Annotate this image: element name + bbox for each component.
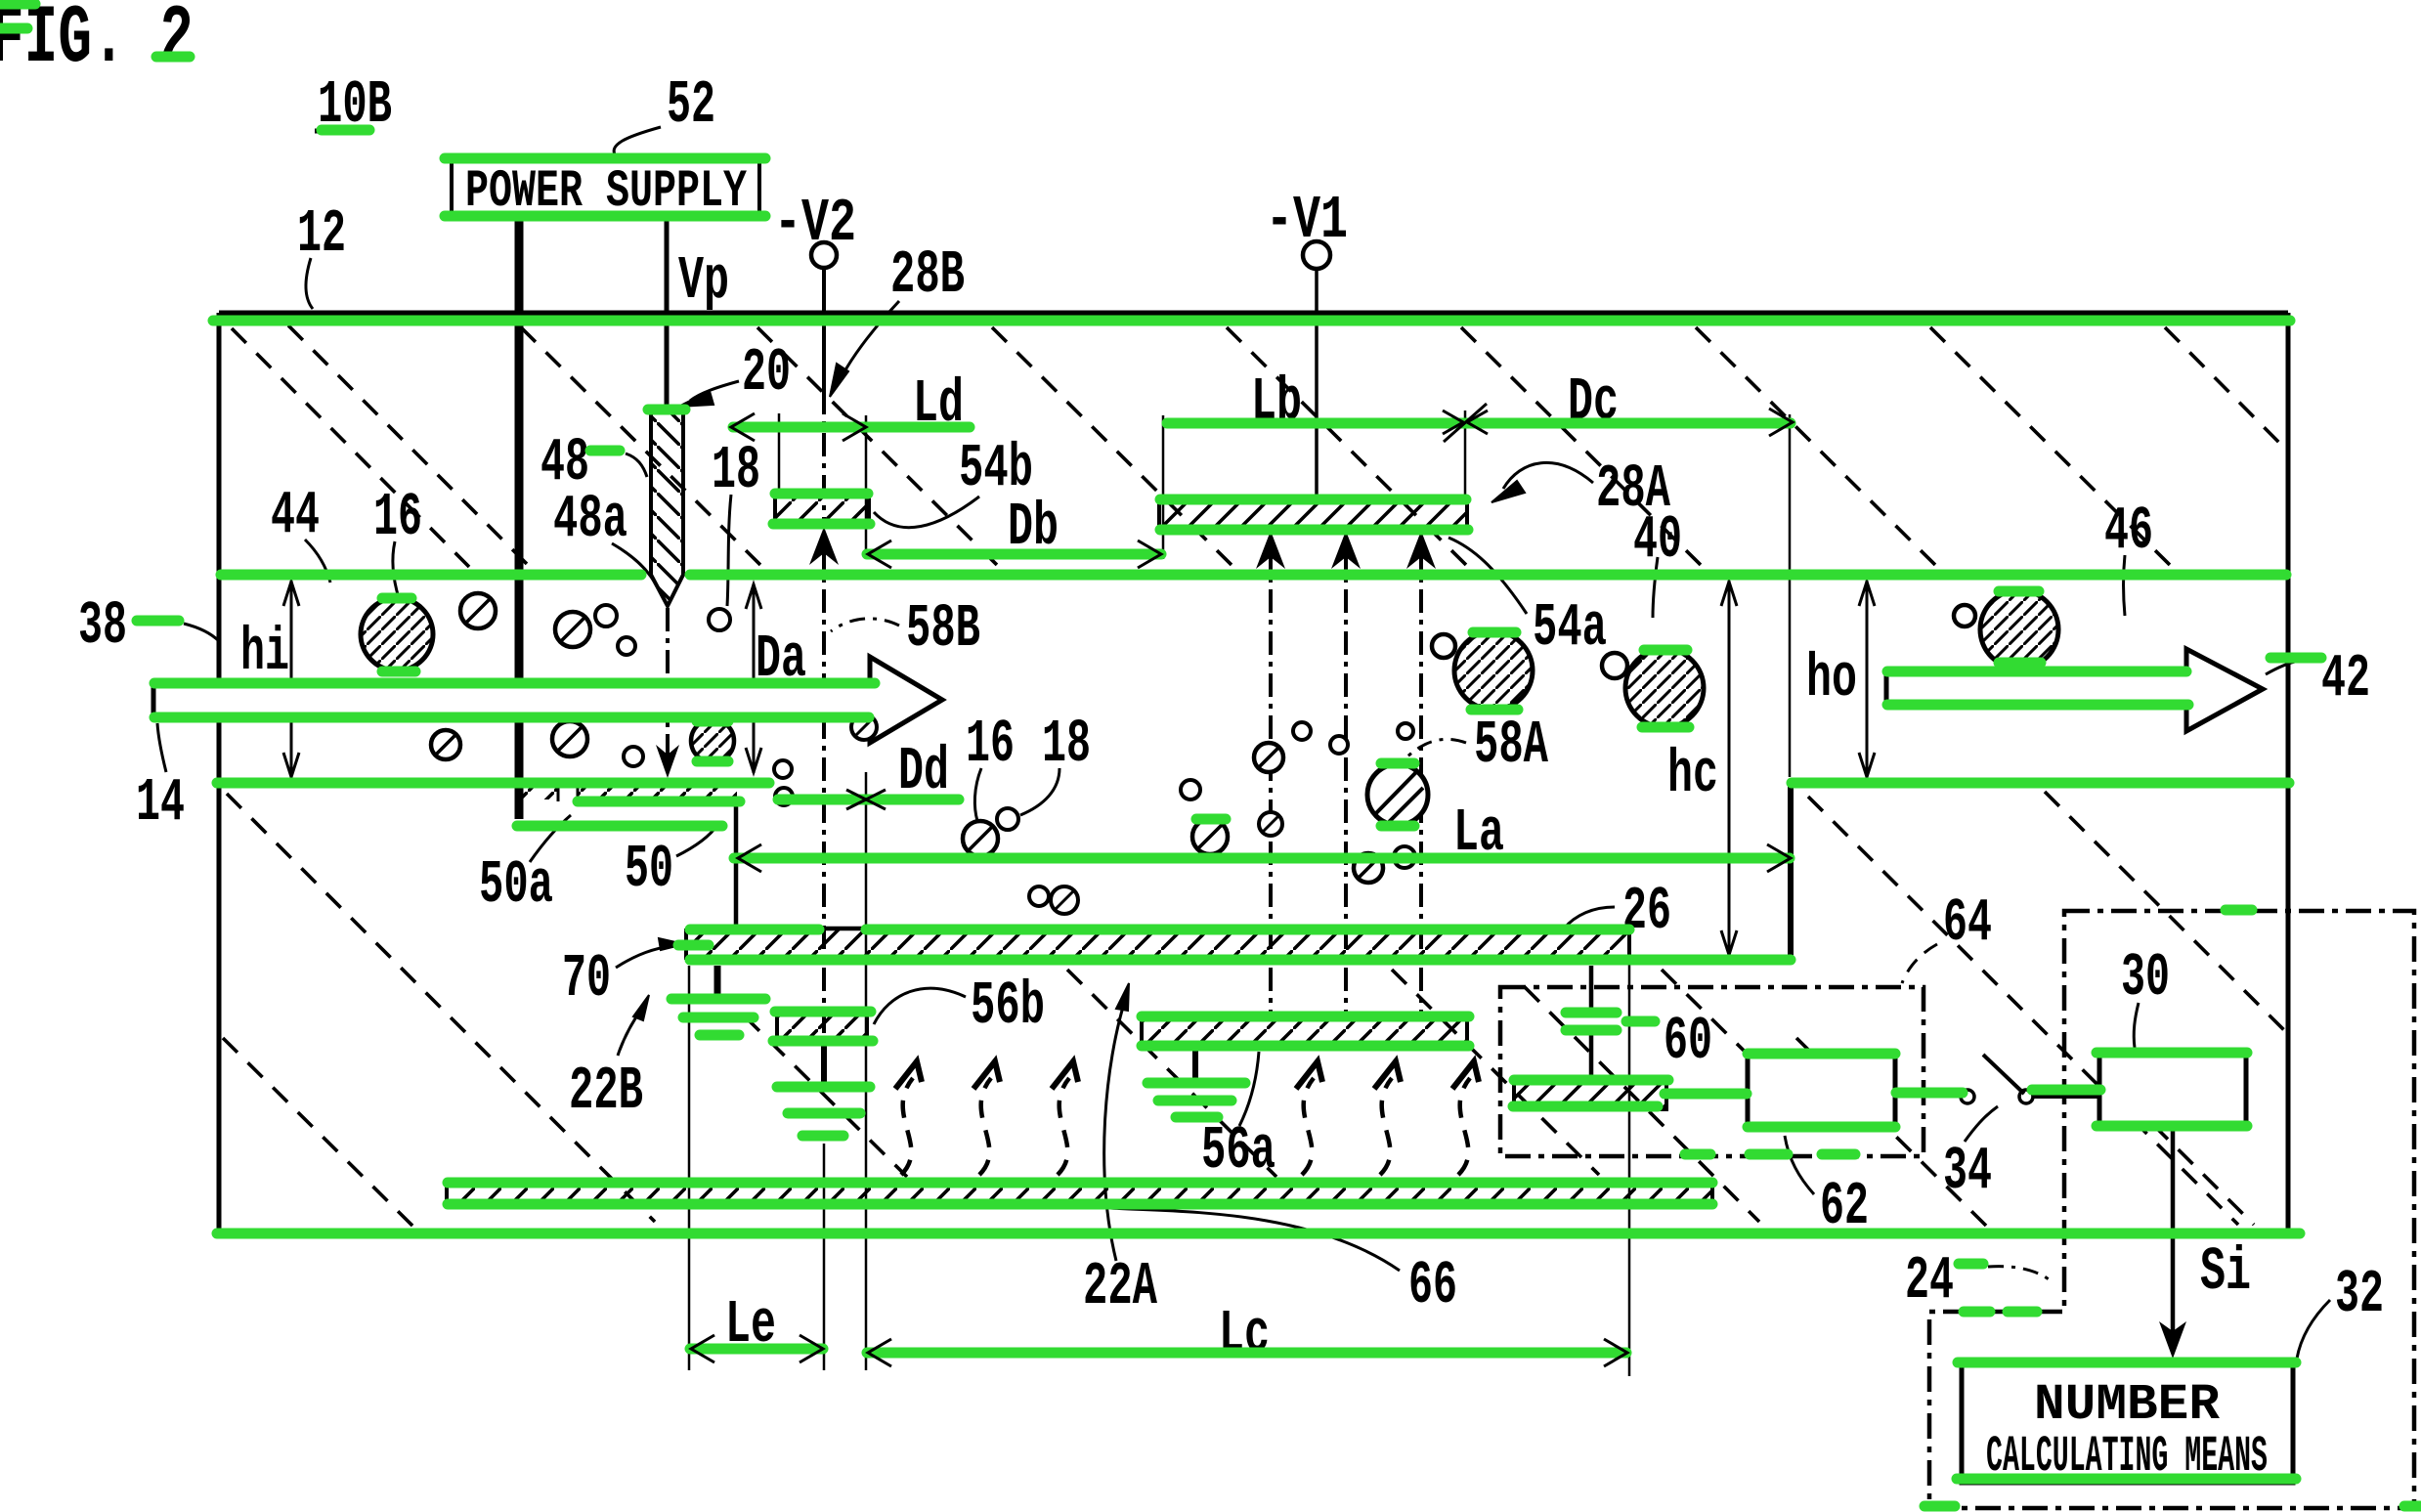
green electrode 26 top (690, 925, 819, 935)
extension line from electrode 26 right to Lc (1628, 963, 1631, 1376)
wall hatching dashed diagonals (bottom-left wall block) (223, 794, 655, 1228)
green 54b electrode top (775, 489, 868, 499)
label 20 and leader arrow (678, 338, 791, 408)
green ground 56a bars (1147, 1078, 1245, 1089)
svg-text:32: 32 (2335, 1260, 2384, 1329)
dimension line La arrows (738, 844, 1791, 872)
green electrode 26 left dash (678, 940, 709, 951)
svg-text:58B: 58B (906, 594, 980, 664)
particle slashed cavity lower-left (1259, 812, 1282, 836)
green dashes on box 64 bottom (1685, 1149, 1710, 1160)
green Le dimension line (690, 1344, 823, 1355)
svg-text:12: 12 (297, 199, 346, 269)
svg-text:18: 18 (1042, 710, 1091, 779)
terminal -V1 (1303, 241, 1330, 498)
label 40 and leader (1633, 505, 1682, 618)
green 24 leader dash (1959, 1259, 1983, 1270)
svg-text:26: 26 (1622, 877, 1671, 946)
dimension line Lc arrows (868, 1339, 1627, 1366)
green power supply box bottom (445, 211, 765, 222)
particle tiny downstream b (1602, 653, 1627, 678)
green 56b bottom (773, 1036, 873, 1047)
green 10B underline (322, 125, 369, 136)
svg-text:52: 52 (667, 70, 715, 140)
outlet channel bottom wall (1791, 780, 2288, 785)
label 38 and leader (78, 591, 219, 661)
particle large slashed cavity center (1367, 764, 1428, 825)
label 22A and long leader arrow (1083, 983, 1158, 1321)
green wire resistor to switch (1896, 1088, 1963, 1099)
dimension double arrow hi (283, 581, 299, 778)
green Dd dimension line (778, 795, 959, 805)
svg-text:70: 70 (562, 944, 611, 1014)
particle large hatched outlet (1980, 590, 2058, 669)
svg-text:14: 14 (136, 768, 185, 838)
svg-text:66: 66 (1408, 1251, 1457, 1320)
green inner top wall line (221, 570, 641, 581)
label 48 and leader (540, 428, 647, 497)
label 46 and leader (2104, 497, 2153, 616)
particle tiny cavity c (1398, 723, 1413, 739)
green cavity floor line (690, 955, 1791, 966)
svg-text:Vp: Vp (678, 246, 729, 316)
extension line between Lb and Dc (1464, 410, 1467, 500)
particle slashed cavity left (1254, 743, 1283, 772)
svg-text:hc: hc (1667, 740, 1718, 809)
green 56b top (775, 1007, 871, 1017)
svg-text:48a: 48a (553, 485, 627, 554)
svg-text:FIG. 2: FIG. 2 (0, 0, 194, 86)
signal Si arrow from box 30 (2159, 1127, 2186, 1359)
green resistor box 62 top (1748, 1049, 1895, 1059)
label 70 and leader arrow (562, 938, 684, 1014)
dimension line Le arrows (691, 1335, 823, 1362)
dimension double arrow hc (1721, 581, 1737, 956)
svg-text:22A: 22A (1083, 1252, 1158, 1321)
label 42 and leader (2266, 644, 2370, 713)
wall hatching dashed diagonals (bottom-middle wall block) (745, 970, 1791, 1222)
svg-text:58A: 58A (1474, 711, 1549, 780)
svg-text:50: 50 (625, 835, 673, 904)
wavy heat arrows right group (1302, 1078, 1470, 1175)
label 44 and leader (271, 481, 330, 583)
extension line at Dc right / step corner (1789, 414, 1792, 777)
svg-text:60: 60 (1664, 1007, 1712, 1076)
particle tiny cavity a (1293, 722, 1311, 740)
particle tiny cavity pair a (1029, 886, 1049, 906)
svg-text:20: 20 (742, 338, 791, 408)
label 62 and leader (1785, 1136, 1869, 1241)
inlet flow arrow (hollow) (153, 657, 942, 743)
green marks on FIG title (0, 0, 35, 10)
green device bottom line (217, 1229, 2300, 1239)
svg-text:34: 34 (1943, 1137, 1992, 1206)
particle 16 large hatched upstream (361, 598, 433, 670)
green 38 leader dash (137, 616, 179, 626)
dimension line Ld with arrows (684, 413, 973, 441)
particle tiny outlet (1954, 605, 1975, 626)
particle tiny near 58A (1181, 780, 1200, 799)
green particle edge dashes upstream (382, 593, 411, 604)
cavity right wall step (1788, 782, 1794, 962)
green La dimension line (734, 853, 1790, 864)
svg-text:56b: 56b (971, 972, 1045, 1041)
particle large hatched downstream a (1454, 631, 1533, 710)
green Ld dimension line (733, 422, 970, 433)
svg-text:42: 42 (2321, 644, 2370, 713)
green inlet channel bottom line (217, 778, 769, 789)
extension line at 54b left (778, 413, 781, 497)
label 58A and dash-dot leader (1400, 711, 1549, 780)
label 18 mid and leader (1020, 710, 1091, 815)
svg-text:-V1: -V1 (1266, 186, 1348, 255)
label 10B with underline (315, 70, 392, 140)
green sense bar top (1514, 1075, 1668, 1086)
green electrode 66 bottom (448, 1199, 1712, 1210)
svg-text:18: 18 (712, 436, 760, 505)
power supply box 52 (452, 158, 759, 222)
label 48a and leader (553, 485, 657, 586)
particle small slashed upstream a (460, 593, 496, 628)
green resistor box 62 bottom (1748, 1122, 1895, 1133)
green electrode 66 top (448, 1178, 1712, 1188)
green nozzle top cap (648, 405, 685, 415)
extension line from electrode 26 left to Le (688, 966, 691, 1370)
particle tiny mid 18 (997, 808, 1018, 830)
particle tiny below La (1394, 846, 1415, 868)
ground 70 under electrode 50 (669, 966, 768, 1035)
label 30 and leader (2121, 943, 2170, 1048)
svg-text:38: 38 (78, 591, 127, 661)
cavity floor line (686, 958, 1791, 963)
svg-text:-V2: -V2 (774, 189, 856, 258)
green dash on box 24 top (2226, 905, 2252, 916)
green outlet arrow top (1887, 667, 2186, 677)
wall hatching dashed diagonals (bottom-right wall block) (1796, 792, 2288, 1226)
wall hatching dashed diagonals (top wall) (232, 325, 2288, 567)
svg-text:hi: hi (240, 618, 289, 687)
extension line at Db right (1162, 415, 1165, 559)
particle hatched lower row (691, 719, 734, 762)
label 16 upstream and leader (373, 483, 422, 598)
ion axis -V2 dash-dot vertical (809, 269, 839, 1370)
svg-text:ho: ho (1806, 644, 1857, 713)
label 28A and leader arrow (1492, 454, 1671, 524)
ground under electrode 56b (774, 1040, 873, 1136)
amplifier box 30 (2099, 1053, 2246, 1127)
green power supply box top (445, 153, 765, 164)
electrode 56b (hatched) (777, 1012, 867, 1040)
sense electrode bar in box 64 (hatched) (1514, 1080, 1666, 1109)
svg-text:NUMBER: NUMBER (2034, 1376, 2221, 1434)
particle small slashed upstream b (555, 612, 590, 647)
terminal -V2 (811, 242, 837, 311)
green Lb Dc dimension line (1167, 418, 1791, 429)
label 66 and long leader (1110, 1208, 1457, 1320)
capacitor 60 (plates and stems) (1564, 966, 1619, 1080)
svg-text:46: 46 (2104, 497, 2153, 566)
green ground 70 bars (671, 994, 765, 1005)
green box 32 bottom (1957, 1474, 2296, 1485)
particle tiny downstream a (1432, 634, 1455, 658)
green dashes on box 24 jog (1964, 1307, 1990, 1318)
wavy heat arrows left group (901, 1078, 1069, 1175)
electrode 50 (hatched, with lower plate) (516, 784, 739, 826)
ground under electrode 56a (1145, 1046, 1248, 1117)
electrode 66 (long hatched strip) (447, 1183, 1712, 1204)
green electrode 50 lower plate (517, 821, 722, 832)
green box 30 bottom (2097, 1121, 2247, 1132)
resistor box 62 (1748, 1054, 1895, 1127)
dimension double arrow Da (746, 583, 761, 773)
wire sense bar to resistor 62 (1667, 1092, 1748, 1096)
wire switch 34 to amplifier box 30 (2033, 1095, 2099, 1099)
particle beam dash-dot axis below nozzle (656, 608, 679, 778)
Vp wire from power supply to nozzle (665, 218, 670, 408)
label 32 and leader (2297, 1260, 2384, 1359)
green box 32 top (1958, 1358, 2296, 1368)
nozzle electrode 20/48 (hatched) (651, 410, 683, 606)
green inlet arrow bottom (154, 713, 869, 723)
green Lc dimension line (867, 1348, 1626, 1359)
label 54b and leader (874, 434, 1033, 528)
thick power wire to electrode 50 (515, 218, 524, 819)
label 50 and leader (625, 825, 717, 904)
label 12 and leader (297, 199, 346, 309)
green outlet channel bottom line (1792, 778, 2289, 789)
particle tiny pair near 50 a (774, 760, 792, 778)
label 56a and leader (1201, 1052, 1275, 1186)
svg-text:24: 24 (1905, 1246, 1954, 1316)
ion dash-dot vertical arrows under electrode 28A (1256, 531, 1436, 1016)
particle slashed below La (1354, 853, 1383, 883)
number calculating means box 32 (1962, 1362, 2293, 1486)
device outer wall 12 rectangle (219, 313, 2288, 1234)
green 60 leader dash (1626, 1016, 1655, 1027)
green particle edge dashes downstream (1473, 627, 1516, 638)
box 24 dash-dot boundary (1929, 911, 2414, 1508)
label 28B and leader arrow (830, 240, 965, 397)
dimension double arrow ho (1859, 581, 1875, 778)
box 64 dash-dot rectangle (1500, 987, 1924, 1156)
svg-text:28B: 28B (890, 240, 965, 310)
switch leader 34 (1965, 1106, 1998, 1142)
green top wall line (213, 316, 2290, 326)
green wire to resistor (1664, 1089, 1747, 1100)
dimension line Dd arrows (846, 790, 886, 809)
green wire switch to box 30 (2032, 1085, 2100, 1096)
dimension line Db arrows (868, 540, 1161, 568)
outlet flow arrow (hollow) (1886, 649, 2263, 731)
electrode 28A (hatched) (1159, 498, 1467, 529)
svg-text:44: 44 (271, 481, 320, 550)
label 58B and dash-dot leader (831, 594, 980, 664)
green 42 leader dash (2270, 653, 2321, 664)
particle tiny lower row (624, 747, 643, 766)
green 48 leader dash (590, 446, 620, 456)
wire resistor 62 to switch 34 (1895, 1092, 1961, 1096)
svg-text:50a: 50a (479, 850, 553, 920)
green 56a top (1142, 1012, 1469, 1022)
electrode 26 (hatched plate on cavity floor) (686, 929, 1629, 960)
label 52 and leader (614, 70, 715, 156)
dimension line Lb Dc arrows and ticks (1443, 404, 1793, 442)
label 24 and dash-dot leader (1905, 1246, 2053, 1316)
particle tiny 18 upstream c (709, 609, 730, 630)
green dashes on box 24 bottom edge (1924, 1501, 1955, 1512)
svg-text:30: 30 (2121, 943, 2170, 1013)
switch 34 (1961, 1055, 2033, 1103)
green outlet arrow bottom (1887, 700, 2188, 711)
particle small cavity pair b (1051, 886, 1078, 914)
svg-text:22B: 22B (569, 1057, 643, 1126)
green 56a bottom (1142, 1041, 1469, 1052)
particle slashed near 58A (1192, 819, 1228, 854)
green electrode 50 bottom edge (578, 797, 740, 807)
svg-text:16: 16 (966, 710, 1015, 779)
label 26 and leader (1564, 877, 1671, 946)
particle slashed lower row a (431, 730, 460, 759)
particle slashed lower row b (552, 721, 587, 756)
label 14 and leader (136, 723, 185, 838)
electrode 56a (hatched) (1142, 1016, 1467, 1046)
green 28A electrode top (1160, 495, 1466, 505)
svg-text:Lc: Lc (1219, 1300, 1270, 1369)
particle tiny pair near 50 b (775, 788, 793, 805)
svg-text:64: 64 (1943, 888, 1992, 958)
inlet channel bottom wall (219, 780, 770, 785)
inner top wall line 44/46 (219, 573, 2288, 578)
electrode 54b (hatched) (775, 494, 869, 524)
green capacitor 60 plates (1566, 1008, 1617, 1018)
particle tiny 18 upstream b (618, 637, 635, 655)
label 16 mid and leader (966, 710, 1015, 821)
green box 30 top (2097, 1048, 2247, 1058)
particle tiny 18 upstream a (595, 605, 617, 626)
svg-text:56a: 56a (1201, 1116, 1275, 1186)
particle slashed mid 16 (963, 821, 998, 856)
svg-text:Si: Si (2200, 1237, 2251, 1307)
particle small slashed mid channel (851, 714, 877, 740)
green inlet arrow top (154, 678, 875, 689)
green 28A electrode bottom (1160, 525, 1468, 536)
green sense bar bottom (1513, 1102, 1658, 1112)
label 50a and leader (479, 815, 571, 920)
svg-text:54a: 54a (1533, 593, 1607, 663)
particle tiny cavity b (1330, 736, 1348, 754)
particle large hatched downstream 40 (1625, 649, 1704, 727)
green Db dimension line (867, 549, 1161, 560)
label 64 and dashed leader (1902, 888, 1992, 983)
label 56b and leader (874, 972, 1045, 1041)
green 54b electrode bottom (773, 519, 870, 530)
label 54a and leader (1448, 538, 1607, 663)
svg-text:16: 16 (373, 483, 422, 552)
extension line at 54b right / Dd / Le (865, 415, 868, 1370)
label 18 nozzle and leader (712, 436, 760, 606)
label 22B and leader arrow (569, 995, 649, 1126)
green ground 56b bars (777, 1082, 870, 1093)
cavity left wall step (734, 799, 739, 930)
